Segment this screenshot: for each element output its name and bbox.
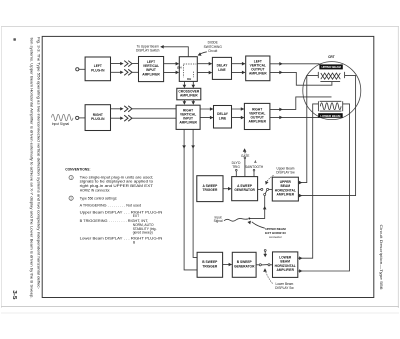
input terminal dot xyxy=(248,218,250,220)
svg-text:CRT: CRT xyxy=(328,55,335,59)
svg-text:Lower Beam DISPLAY . . . RIGHT: Lower Beam DISPLAY . . . RIGHT PLUG-IN xyxy=(80,237,163,241)
label chip UPPER BEAM xyxy=(319,64,342,69)
wire RVOA bottom output xyxy=(270,116,319,118)
wire to upper beam display switch xyxy=(161,47,189,57)
A gen output A SAWTOOTH xyxy=(253,171,255,177)
svg-text:CROSSOVERAMPLIFIER: CROSSOVERAMPLIFIER xyxy=(178,90,199,98)
CRT circle xyxy=(303,62,361,120)
svg-text:Input Signal: Input Signal xyxy=(52,122,70,126)
pointer arrow to diode box xyxy=(198,52,207,55)
page top edge xyxy=(1,26,399,28)
wire RVOA top output to lower plates upper xyxy=(270,97,332,110)
wire xyxy=(79,68,85,70)
arrows crossover to RVIA xyxy=(184,100,193,104)
block CROSSOVER AMPLIFIER xyxy=(177,88,201,100)
wires diode switch to delay line xyxy=(197,64,211,73)
wire LVOA bottom output to upper plates lower xyxy=(270,72,332,85)
wires RVIA to delay line xyxy=(200,109,213,118)
svg-text:To Upper BeamDISPLAY Switch: To Upper BeamDISPLAY Switch xyxy=(136,44,160,52)
note 1 circle xyxy=(69,176,73,180)
wire UBHA bottom output to upper plates right xyxy=(298,76,355,196)
wire LVOA top output to upper plates xyxy=(270,63,320,65)
svg-text:CONVENTIONS:: CONVENTIONS: xyxy=(65,168,90,172)
lower display switch xyxy=(256,264,259,266)
svg-text:Circuit Description—Type 556: Circuit Description—Type 556 xyxy=(379,225,383,290)
block B SWEEP TRIGGER xyxy=(197,252,223,277)
block A SWEEP GENERATOR xyxy=(232,177,258,201)
wire UBHA top output to upper plates left xyxy=(298,75,318,182)
dashed internal routing xyxy=(183,64,196,77)
svg-text:Type 556 control settings:: Type 556 control settings: xyxy=(80,196,118,200)
wire A trigger to A generator xyxy=(223,188,231,190)
svg-text:UPPER BEAM: UPPER BEAM xyxy=(321,65,341,69)
svg-text:A SWEEPTRIGGER: A SWEEPTRIGGER xyxy=(202,184,218,192)
page left edge xyxy=(0,27,2,309)
upper beam lower plate xyxy=(320,81,340,83)
chevrons xyxy=(120,61,132,67)
block DELAY LINE lower xyxy=(214,106,232,129)
svg-text:3-5: 3-5 xyxy=(11,290,17,299)
svg-text:B SWEEPTRIGGER: B SWEEPTRIGGER xyxy=(202,260,218,268)
block LOWER BEAM HORIZONTAL AMPLIFIER xyxy=(273,252,298,278)
page right edge xyxy=(397,27,399,309)
block RIGHT VERTICAL OUTPUT AMPLIFIER xyxy=(244,103,270,129)
note 2 circle xyxy=(69,196,73,200)
block A SWEEP TRIGGER xyxy=(197,176,223,202)
wire B trigger to B generator xyxy=(223,264,232,266)
input signal squiggle wire xyxy=(224,218,248,221)
svg-text:Upper Beam DISPLAY . . . RIGHT: Upper Beam DISPLAY . . . RIGHT PLUG-IN xyxy=(80,210,163,214)
wire pair plug-in to RVIA xyxy=(111,109,177,118)
margin mark xyxy=(13,38,16,41)
wire LBHA top output to lower plates left bracket xyxy=(298,104,319,258)
label chip LOWER BEAM xyxy=(318,113,343,118)
wire LBHA bottom output to lower plates right bracket xyxy=(298,104,350,271)
block B SWEEP GENERATOR xyxy=(232,252,256,277)
block DELAY LINE upper xyxy=(212,57,231,79)
input signal squiggle xyxy=(52,114,73,121)
wires LVIA to diode switch xyxy=(164,64,179,73)
svg-text:Lower BeamDISPLAY Sw: Lower BeamDISPLAY Sw xyxy=(275,282,294,290)
svg-text:A TRIGGERING . . . . . . . . .: A TRIGGERING . . . . . . . . . Not used xyxy=(80,204,142,208)
block diode switching xyxy=(179,57,197,82)
svg-text:gered sweep): gered sweep) xyxy=(133,231,153,235)
page bottom edge xyxy=(1,306,399,308)
svg-text:DLY'DTRIG: DLY'DTRIG xyxy=(232,161,242,169)
svg-text:SAWTOOTH: SAWTOOTH xyxy=(245,165,264,169)
svg-text:EXT: EXT xyxy=(133,214,139,218)
wire pair plug-in to LVIA xyxy=(111,64,139,73)
A gen output A GATE xyxy=(244,159,246,177)
block LEFT PLUG-IN xyxy=(85,57,110,81)
chevrons xyxy=(120,106,132,112)
diagram border frame xyxy=(42,36,374,297)
svg-text:InputSignal: InputSignal xyxy=(214,215,223,223)
block RIGHT PLUG-IN xyxy=(85,105,110,131)
trigger pickoff wires to B sweep trigger xyxy=(184,129,197,270)
wires delay to LVOA xyxy=(232,64,245,73)
ext horiz line to upper switch xyxy=(249,196,264,219)
wire xyxy=(79,117,85,119)
dashed pointer to upper switch xyxy=(266,175,273,183)
block RIGHT VERTICAL INPUT AMPLIFIER xyxy=(176,105,200,129)
upper display switch xyxy=(258,188,261,190)
wires delay to RVOA xyxy=(232,109,244,118)
svg-text:tion systems. Upper Beam Horiz: tion systems. Upper Beam Horizontal Ampl… xyxy=(29,38,34,299)
unused ext contact stub above lower switch xyxy=(264,249,266,251)
block LEFT VERTICAL OUTPUT AMPLIFIER xyxy=(246,56,270,81)
dashed pointer to lower switch xyxy=(265,271,272,284)
lower beam distributed plates xyxy=(318,101,342,111)
block UPPER BEAM HORIZONTAL AMPLIFIER xyxy=(272,177,298,201)
arrows diode switch to crossover xyxy=(184,81,193,87)
svg-text:DH: DH xyxy=(187,77,191,81)
block LEFT VERTICAL INPUT AMPLIFIER xyxy=(139,57,164,82)
svg-text:Upper BeamDISPLAY Sw: Upper BeamDISPLAY Sw xyxy=(276,166,295,174)
upper beam distributed plates xyxy=(318,72,344,78)
curved pointer to input terminal dot xyxy=(252,222,265,228)
svg-text:LOWER BEAM: LOWER BEAM xyxy=(320,114,341,118)
svg-text:Fig. 3-3. The Type 556 operati: Fig. 3-3. The Type 556 operating as two … xyxy=(36,37,41,290)
A gen output DLY'D TRIG xyxy=(235,171,237,177)
input terminal right xyxy=(76,116,79,119)
input terminal left xyxy=(76,68,79,71)
svg-text:(DH: (DH xyxy=(177,65,182,69)
